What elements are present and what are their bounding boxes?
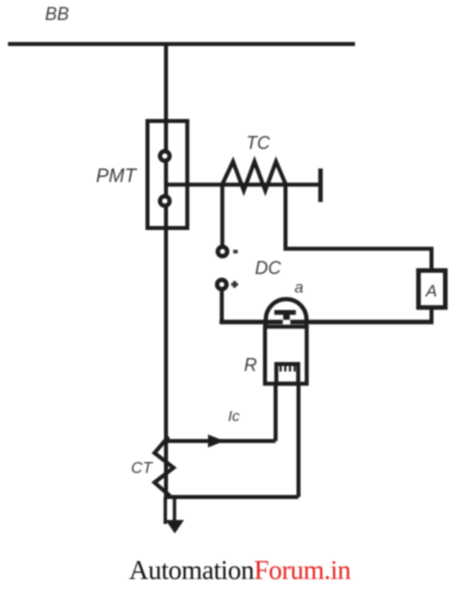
ground arrow shaft left [164, 497, 167, 524]
breaker contact terminal lower [160, 196, 170, 206]
wire coil right leg [297, 384, 301, 497]
ground arrowhead [166, 520, 185, 534]
svg-text:CT: CT [131, 460, 154, 477]
relay R body [265, 327, 307, 384]
svg-text:R: R [244, 355, 257, 375]
busbar BB [8, 42, 355, 46]
trip coil TC zigzag [222, 162, 286, 191]
svg-text:TC: TC [246, 133, 271, 153]
relay coil box [276, 364, 298, 384]
breaker contact terminal upper [160, 151, 170, 161]
wire coil left leg [274, 384, 278, 441]
coil hatch ticks [281, 366, 295, 372]
svg-text:A: A [425, 282, 437, 301]
minus sign [233, 250, 238, 254]
wire Ic horizontal [166, 439, 276, 443]
wire plus terminal down [220, 291, 224, 323]
wire down to minus terminal [220, 185, 224, 246]
wire bottom return [166, 495, 299, 499]
svg-text:BB: BB [45, 4, 69, 24]
wire contact row left [220, 320, 283, 325]
moving contact tick [283, 314, 290, 320]
wire contact row right [290, 320, 433, 325]
svg-text:PMT: PMT [96, 166, 138, 187]
contact bar [274, 310, 296, 315]
Ic arrowhead [208, 435, 225, 448]
wire branch to trip coil [166, 183, 319, 187]
svg-text:a: a [295, 280, 304, 297]
svg-text:Ic: Ic [228, 408, 240, 425]
terminal bar right of TC [318, 169, 323, 203]
svg-text:AutomationForum.in: AutomationForum.in [129, 555, 351, 585]
wire A box bottom feed [430, 307, 434, 322]
DC minus terminal [218, 247, 227, 256]
ammeter A box [419, 271, 446, 308]
breaker PMT box [148, 121, 188, 228]
wire A box top feed [286, 186, 432, 269]
ground arrow shaft right [173, 497, 176, 521]
svg-text:DC: DC [255, 258, 282, 278]
CT zigzag [155, 437, 174, 497]
plus sign [231, 281, 238, 288]
DC plus terminal [217, 280, 226, 289]
wire main vertical feeder [164, 44, 168, 497]
relay contact dome [266, 299, 307, 328]
